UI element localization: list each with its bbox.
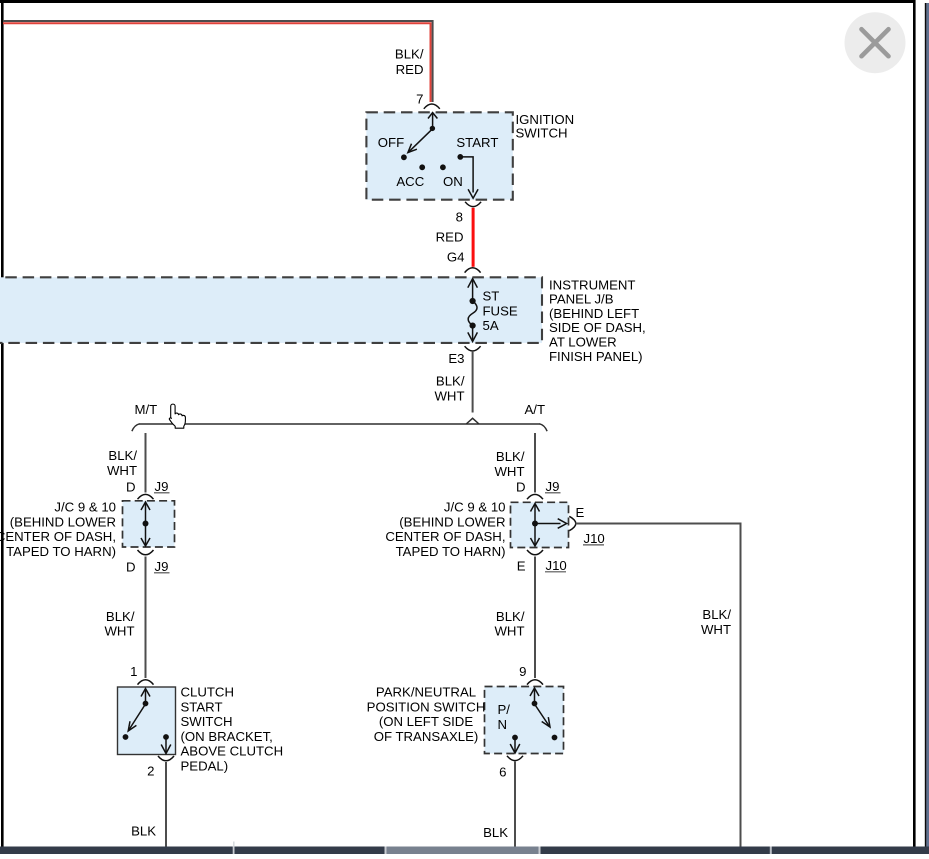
- svg-text:CENTER OF DASH,: CENTER OF DASH,: [0, 529, 116, 544]
- label BLK/WHT right lower: [494, 609, 524, 639]
- bottom scrollbar: [0, 842, 929, 855]
- svg-text:BLK/: BLK/: [108, 448, 137, 463]
- svg-text:SWITCH: SWITCH: [181, 714, 233, 729]
- svg-text:BLK/: BLK/: [496, 449, 525, 464]
- J/C right arrows and node: [531, 504, 567, 547]
- connector arc E right: [569, 516, 576, 530]
- svg-text:TAPED TO HARN): TAPED TO HARN): [396, 544, 506, 559]
- connector arc G4: [465, 268, 481, 273]
- wire BLK right: [514, 762, 516, 847]
- net J10 bottom: [545, 558, 567, 573]
- svg-text:G4: G4: [447, 250, 465, 265]
- label IGNITION SWITCH: [516, 112, 575, 141]
- svg-text:ACC: ACC: [396, 174, 424, 189]
- svg-text:WHT: WHT: [104, 624, 134, 639]
- svg-text:J9: J9: [155, 559, 169, 574]
- svg-text:6: 6: [499, 764, 506, 779]
- svg-text:J/C 9 & 10: J/C 9 & 10: [54, 500, 116, 515]
- ignition switch contacts and wiper: [401, 113, 478, 199]
- svg-text:OFF: OFF: [378, 135, 404, 150]
- wire A/T branch lower: [534, 557, 536, 679]
- svg-text:A/T: A/T: [525, 402, 546, 417]
- net J9 bottom left: [154, 559, 170, 574]
- label INSTRUMENT PANEL J/B: [549, 277, 646, 364]
- svg-text:PANEL J/B: PANEL J/B: [549, 292, 614, 307]
- label BLK/WHT left upper: [107, 448, 137, 478]
- svg-text:7: 7: [416, 92, 423, 107]
- fuse ST FUSE 5A: [468, 279, 478, 342]
- svg-text:J10: J10: [584, 531, 605, 546]
- svg-text:OF TRANSAXLE): OF TRANSAXLE): [374, 729, 479, 744]
- connector arc bottom J/C right: [527, 550, 543, 555]
- close button: [845, 12, 906, 73]
- junction connector J/C right box: [511, 502, 569, 547]
- label BLK/WHT far right: [701, 607, 731, 637]
- svg-text:START: START: [456, 135, 498, 150]
- svg-text:ON: ON: [443, 174, 463, 189]
- svg-text:IGNITION: IGNITION: [516, 112, 575, 127]
- svg-text:BLK/: BLK/: [702, 607, 731, 622]
- wire M/T branch lower: [145, 557, 147, 679]
- svg-text:ABOVE CLUTCH: ABOVE CLUTCH: [181, 744, 284, 759]
- svg-text:POSITION SWITCH: POSITION SWITCH: [367, 699, 486, 714]
- svg-text:(ON BRACKET,: (ON BRACKET,: [181, 729, 273, 744]
- svg-text:FUSE: FUSE: [483, 303, 518, 318]
- svg-text:5A: 5A: [483, 318, 499, 333]
- label P/N: [498, 702, 511, 732]
- wire BLK/RED (red stripe): [3, 23, 431, 102]
- right scrollbar edge: [925, 3, 929, 854]
- svg-text:J9: J9: [546, 479, 560, 494]
- svg-text:2: 2: [147, 763, 154, 778]
- clutch start switch S2 box: [118, 687, 176, 755]
- svg-text:BLK: BLK: [131, 823, 156, 838]
- svg-text:START: START: [181, 699, 223, 714]
- connector arc J9 left: [138, 494, 154, 499]
- svg-text:WHT: WHT: [701, 622, 731, 637]
- svg-text:1: 1: [130, 664, 137, 679]
- svg-text:N: N: [498, 717, 508, 732]
- clutch start switch contacts: [123, 689, 171, 754]
- svg-text:J9: J9: [155, 479, 169, 494]
- label PARK/NEUTRAL POSITION SWITCH: [367, 685, 486, 744]
- J/C left arrows and node: [141, 502, 150, 546]
- svg-text:(BEHIND LOWER: (BEHIND LOWER: [10, 514, 116, 529]
- svg-text:(BEHIND LOWER: (BEHIND LOWER: [399, 514, 505, 529]
- instrument panel J/B box: [0, 277, 542, 343]
- svg-text:J/C 9 & 10: J/C 9 & 10: [444, 500, 506, 515]
- wire A/T branch upper: [534, 433, 536, 493]
- svg-text:D: D: [126, 479, 136, 494]
- svg-text:BLK: BLK: [483, 825, 508, 840]
- net J9 top left: [154, 479, 170, 494]
- svg-text:PARK/NEUTRAL: PARK/NEUTRAL: [376, 685, 476, 700]
- wire RED: [472, 208, 475, 267]
- label BLK/WHT left lower: [104, 609, 134, 639]
- svg-text:8: 8: [456, 210, 463, 225]
- svg-text:BLK/: BLK/: [395, 47, 424, 62]
- svg-text:WHT: WHT: [494, 624, 524, 639]
- wire BLK/RED (black stripe): [3, 21, 433, 102]
- svg-text:TAPED TO HARN): TAPED TO HARN): [6, 544, 116, 559]
- svg-text:D: D: [126, 559, 136, 574]
- connector arc pin 8: [465, 202, 481, 207]
- park/neutral position switch S3 box: [485, 687, 564, 754]
- svg-text:WHT: WHT: [494, 464, 524, 479]
- svg-text:BLK/: BLK/: [496, 609, 525, 624]
- svg-text:E: E: [576, 505, 585, 520]
- svg-text:BLK/: BLK/: [436, 374, 465, 389]
- connector arc pin 9: [527, 680, 543, 685]
- junction connector J/C left box: [123, 501, 175, 547]
- svg-text:M/T: M/T: [135, 402, 158, 417]
- connector arc pin 6: [507, 756, 523, 761]
- connector arc pin 1: [138, 680, 154, 685]
- svg-text:SWITCH: SWITCH: [516, 126, 568, 141]
- net J10 right branch: [583, 531, 605, 546]
- net J9 top right: [545, 479, 561, 494]
- wire BLK left: [165, 762, 167, 847]
- svg-text:E3: E3: [448, 351, 464, 366]
- svg-text:INSTRUMENT: INSTRUMENT: [549, 277, 635, 292]
- svg-text:BLK/: BLK/: [106, 609, 135, 624]
- svg-text:SIDE OF DASH,: SIDE OF DASH,: [549, 320, 646, 335]
- svg-text:9: 9: [519, 664, 526, 679]
- cursor icon: [169, 404, 185, 428]
- svg-text:AT LOWER: AT LOWER: [549, 335, 617, 350]
- svg-text:(ON LEFT SIDE: (ON LEFT SIDE: [379, 714, 473, 729]
- svg-text:WHT: WHT: [434, 388, 464, 403]
- svg-text:RED: RED: [436, 230, 464, 245]
- label BLK/WHT right upper: [494, 449, 524, 479]
- svg-text:CLUTCH: CLUTCH: [181, 685, 234, 700]
- svg-text:D: D: [516, 479, 526, 494]
- wire BLK/WHT below E3: [472, 352, 474, 413]
- label ST FUSE 5A: [483, 289, 518, 334]
- connector arc pin 7: [424, 104, 440, 109]
- connector arc pin 2: [158, 756, 174, 761]
- ignition switch U1 box: [366, 112, 512, 199]
- svg-text:WHT: WHT: [107, 463, 137, 478]
- svg-text:FINISH PANEL): FINISH PANEL): [549, 349, 643, 364]
- svg-text:PEDAL): PEDAL): [181, 759, 229, 774]
- svg-text:P/: P/: [498, 702, 511, 717]
- svg-text:ST: ST: [483, 289, 500, 304]
- label CLUTCH START SWITCH: [181, 685, 284, 774]
- svg-text:J10: J10: [546, 558, 567, 573]
- connector arc J9 right: [527, 494, 543, 499]
- svg-text:E: E: [517, 558, 526, 573]
- wire BLK/WHT far right: [576, 524, 741, 847]
- connector arc E3: [465, 346, 481, 351]
- label BLK/RED: [395, 47, 424, 78]
- label J/C 9 & 10 left: [0, 500, 116, 559]
- split bus M/T - A/T: [132, 418, 547, 431]
- svg-text:CENTER OF DASH,: CENTER OF DASH,: [385, 529, 505, 544]
- label BLK/WHT center: [434, 374, 464, 404]
- label J/C 9 & 10 right: [385, 500, 505, 559]
- park/neutral switch contacts: [510, 688, 557, 753]
- svg-text:(BEHIND LEFT: (BEHIND LEFT: [549, 306, 639, 321]
- svg-text:RED: RED: [396, 62, 424, 77]
- connector arc bottom J/C left: [138, 550, 154, 555]
- wire M/T branch upper: [145, 433, 147, 493]
